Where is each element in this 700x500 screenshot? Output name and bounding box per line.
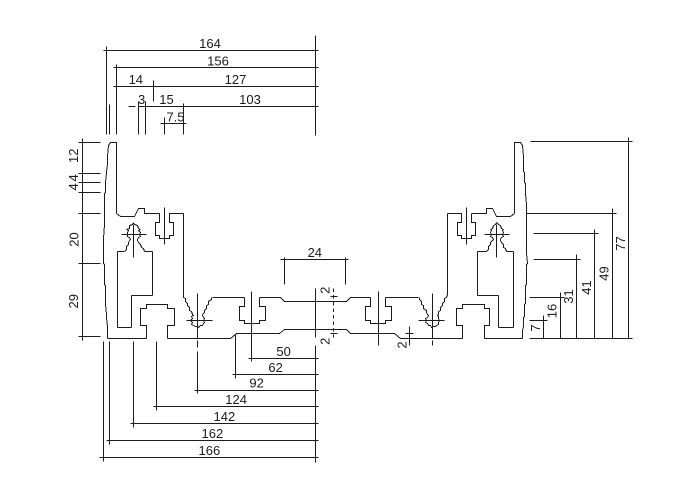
wire outer wall edge-L bbox=[104, 146, 109, 339]
wire extension 62 bbox=[235, 342, 237, 379]
wire bell flare inner-L bbox=[138, 241, 145, 252]
tick 20 top bbox=[79, 213, 101, 215]
tick 12 top bbox=[79, 142, 101, 144]
dim line 49 bbox=[612, 209, 614, 339]
wire boss tent-right-L bbox=[134, 223, 141, 230]
wire projection dashed bbox=[333, 289, 335, 338]
wire pocket shelf outer-L bbox=[118, 251, 125, 253]
wire V-wall inner-L bbox=[203, 298, 212, 315]
wire upper slot axis-R bbox=[466, 208, 468, 245]
tick 4 bottom bbox=[79, 192, 101, 194]
dim line 14/127 bbox=[114, 86, 319, 88]
svg-text:29: 29 bbox=[66, 294, 81, 308]
wire bottom boss hat-L bbox=[141, 305, 175, 339]
wire extension 77 bbox=[531, 141, 633, 143]
dim line 166 bbox=[100, 457, 319, 459]
svg-text:103: 103 bbox=[239, 92, 261, 107]
wire boot wall-L bbox=[131, 296, 133, 328]
wire screw-port pear-R bbox=[426, 315, 440, 328]
dim line 124 bbox=[154, 406, 319, 408]
dim line 77 bbox=[628, 138, 630, 339]
dim line 16 bbox=[560, 293, 562, 339]
wire extension 7.5 left bbox=[164, 118, 166, 135]
svg-text:50: 50 bbox=[276, 344, 290, 359]
svg-text:2: 2 bbox=[318, 338, 333, 345]
wire extension 50 / slot axis-L bbox=[251, 292, 253, 362]
wire ledge and tab-L bbox=[117, 209, 160, 217]
svg-text:142: 142 bbox=[214, 409, 236, 424]
wire extension 16 bbox=[530, 297, 565, 299]
wire crosshair-h screw-port-R bbox=[419, 320, 445, 322]
dim line 31 bbox=[576, 255, 578, 339]
wire center T-slot-L bbox=[240, 298, 266, 324]
dim line 92 bbox=[195, 390, 319, 392]
wire pocket wall inner-R bbox=[477, 252, 479, 296]
wire centerline mid bbox=[315, 289, 317, 338]
wire fin top-L bbox=[109, 143, 117, 214]
svg-text:7.5: 7.5 bbox=[166, 109, 184, 124]
wire extension 166 bbox=[103, 342, 105, 462]
dim line left stack bbox=[82, 139, 84, 341]
wire bell flare inner-R bbox=[487, 241, 493, 252]
svg-text:3: 3 bbox=[138, 92, 145, 107]
wire extension 164 left bbox=[106, 47, 108, 135]
wire extension 92-L bbox=[197, 352, 199, 394]
dim line 50 bbox=[249, 358, 319, 360]
dim line 162 bbox=[107, 440, 319, 442]
wire rail top-L bbox=[260, 298, 316, 302]
svg-text:41: 41 bbox=[579, 280, 594, 294]
wire boss axis-R bbox=[432, 294, 434, 339]
wire extension 24 right bbox=[345, 258, 347, 285]
wire outer wall edge-R bbox=[523, 146, 528, 339]
wire extension 162-aux bbox=[109, 105, 111, 135]
tick 29 bottom bbox=[79, 336, 101, 338]
wire pocket shelf inner-R bbox=[478, 251, 487, 253]
wire fin top-R bbox=[515, 143, 523, 214]
wire slot axis-R bbox=[378, 292, 380, 346]
wire pocket shelf outer-R bbox=[507, 251, 514, 253]
wire extension 62 upper bbox=[235, 335, 237, 342]
wire boss tent-left-L bbox=[127, 223, 134, 230]
wire tick 2 top bbox=[331, 296, 338, 298]
dim line 7.5 bbox=[161, 123, 187, 125]
dim line 62 bbox=[233, 374, 319, 376]
wire pocket step-L bbox=[132, 295, 153, 297]
dim line 24 bbox=[281, 259, 349, 261]
wire bell flare outer-R bbox=[501, 241, 507, 252]
wire boss bulb-left-R bbox=[501, 230, 504, 241]
svg-text:14: 14 bbox=[129, 72, 143, 87]
wire pocket shelf inner-L bbox=[145, 251, 153, 253]
wire pocket step-R bbox=[478, 295, 499, 297]
wire boss bulb-right-L bbox=[138, 230, 141, 241]
wire boss bulb-left-L bbox=[127, 230, 131, 241]
svg-text:127: 127 bbox=[225, 72, 247, 87]
wire ledge and tab-R bbox=[472, 209, 515, 217]
wire bottom flange outer-R bbox=[485, 338, 523, 340]
wire centerline bottom bbox=[315, 346, 317, 463]
wire extension 31 bbox=[534, 259, 581, 261]
wire extension 103/7.5 bbox=[183, 104, 185, 135]
wire center T-slot-R bbox=[366, 298, 392, 324]
wire extension 124 bbox=[156, 342, 158, 411]
svg-text:2: 2 bbox=[318, 287, 333, 294]
wire extension 7 bbox=[530, 320, 548, 322]
wire tick 2 bottom bbox=[331, 333, 338, 335]
wire extension 3 right bbox=[145, 102, 147, 135]
wire pocket bottom-R bbox=[499, 327, 514, 329]
wire extension 3 left bbox=[138, 102, 140, 135]
wire extension bottom right bbox=[530, 338, 633, 340]
svg-text:4: 4 bbox=[66, 183, 81, 190]
dim line 7 bbox=[543, 316, 545, 339]
wire pocket wall outer-R bbox=[513, 252, 515, 328]
svg-text:166: 166 bbox=[199, 443, 221, 458]
wire extension 162 bbox=[109, 342, 111, 445]
wire boss axis dash-L bbox=[197, 341, 199, 348]
dim line 156 bbox=[114, 67, 319, 69]
wire V-wall outer-R bbox=[439, 295, 448, 315]
wire boss tent-left-R bbox=[497, 223, 504, 230]
tick 20/29 bbox=[79, 263, 101, 265]
wire track surface-L bbox=[213, 297, 245, 299]
wire extension 49 bbox=[527, 213, 617, 215]
svg-text:20: 20 bbox=[67, 232, 82, 246]
svg-text:162: 162 bbox=[202, 426, 224, 441]
svg-text:124: 124 bbox=[225, 392, 247, 407]
wire extension 142 bbox=[133, 342, 135, 428]
wire extension 41 bbox=[534, 233, 599, 235]
svg-text:7: 7 bbox=[528, 324, 543, 331]
svg-text:62: 62 bbox=[268, 360, 282, 375]
wire boss tent-right-R bbox=[491, 223, 497, 230]
tick 4/4 bbox=[79, 182, 101, 184]
wire extension 156 left bbox=[116, 65, 118, 135]
wire upper slot axis-L bbox=[164, 208, 166, 245]
wire tick 2 right bbox=[406, 333, 414, 335]
wire channel wall-L bbox=[183, 214, 185, 295]
dim line 142 bbox=[131, 423, 319, 425]
wire tick 14/127 bbox=[153, 81, 155, 102]
svg-text:77: 77 bbox=[613, 236, 628, 250]
wire extension 24 left bbox=[284, 258, 286, 285]
dim line 3 leader bbox=[129, 106, 136, 108]
svg-text:16: 16 bbox=[545, 304, 560, 318]
dim line 41 bbox=[594, 230, 596, 339]
wire crosshair-h screw-port-L bbox=[187, 320, 213, 322]
wire bottom flange inner-L bbox=[168, 330, 316, 339]
wire pocket bottom-L bbox=[118, 327, 132, 329]
wire bottom flange inner-R bbox=[316, 330, 463, 339]
wire V-wall outer-L bbox=[184, 295, 193, 315]
wire boss axis dash-R bbox=[432, 341, 434, 346]
svg-text:164: 164 bbox=[199, 36, 221, 51]
wire centerline top bbox=[315, 36, 317, 136]
wire pocket wall inner-L bbox=[152, 252, 154, 296]
wire boot wall-R bbox=[498, 296, 500, 328]
wire bottom boss hat-R bbox=[457, 305, 490, 339]
svg-text:2: 2 bbox=[394, 341, 409, 348]
wire boss axis-L bbox=[197, 294, 199, 339]
wire crosshair-v screw-boss-R bbox=[496, 225, 498, 258]
wire bell flare outer-L bbox=[125, 241, 130, 252]
wire upper T-slot-L bbox=[156, 214, 184, 239]
wire crosshair-h screw-boss-L bbox=[122, 234, 147, 236]
wire crosshair-v screw-boss-L bbox=[133, 225, 135, 258]
wire rail top-R bbox=[316, 298, 371, 302]
svg-text:92: 92 bbox=[249, 376, 263, 391]
wire upper T-slot-R bbox=[448, 214, 476, 239]
wire screw-port pear-L bbox=[191, 315, 205, 328]
svg-text:15: 15 bbox=[159, 92, 173, 107]
svg-text:24: 24 bbox=[308, 245, 322, 260]
tick 12/4 bbox=[79, 173, 101, 175]
svg-text:156: 156 bbox=[207, 53, 229, 68]
svg-text:31: 31 bbox=[561, 289, 576, 303]
svg-text:49: 49 bbox=[597, 266, 612, 280]
dim line 164 bbox=[104, 50, 319, 52]
wire crosshair-h screw-boss-R bbox=[485, 234, 510, 236]
dim line 3/15/103 bbox=[139, 106, 319, 108]
svg-text:12: 12 bbox=[66, 149, 81, 163]
wire pocket wall outer-L bbox=[117, 252, 119, 328]
wire V-wall inner-R bbox=[420, 298, 428, 315]
svg-text:4: 4 bbox=[66, 174, 81, 181]
wire boss bulb-right-R bbox=[491, 230, 494, 241]
wire bottom flange outer-L bbox=[108, 338, 147, 340]
wire track surface-R bbox=[386, 297, 419, 299]
wire channel wall-R bbox=[447, 214, 449, 295]
wire ext 2 right bbox=[409, 327, 411, 346]
